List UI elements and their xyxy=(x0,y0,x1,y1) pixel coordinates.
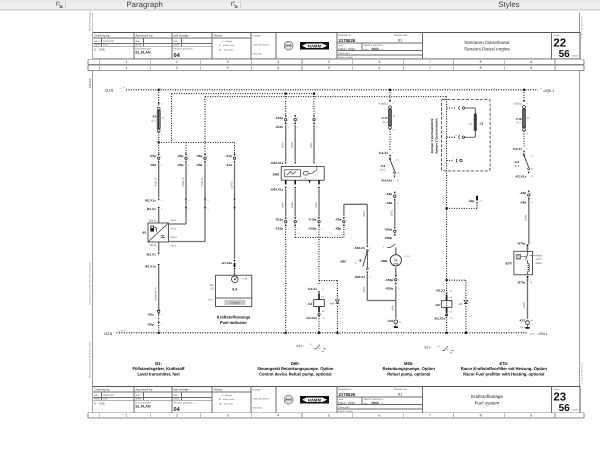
svg-text:-X16a: -X16a xyxy=(308,218,317,222)
svg-text:YE/0.75: YE/0.75 xyxy=(201,177,204,187)
svg-text:-X50a: -X50a xyxy=(384,227,393,231)
connector X5a lower xyxy=(158,310,160,312)
control device D60 xyxy=(281,167,324,181)
svg-text:Control device Refuel pump, op: Control device Refuel pump, optional xyxy=(259,371,332,376)
svg-text:Paragraph: Paragraph xyxy=(126,0,162,9)
svg-text:2/BN: 2/BN xyxy=(282,202,285,208)
svg-text:-S60.X1: -S60.X1 xyxy=(354,275,365,279)
connector col3 pins xyxy=(204,199,206,201)
fuse F5 xyxy=(157,107,160,110)
wire X16p col3 to relay K4 xyxy=(318,227,320,286)
svg-text:2/BN: 2/BN xyxy=(291,142,294,148)
svg-text:-B1.X1: -B1.X1 xyxy=(146,253,156,257)
wire X5a to B1 xyxy=(158,163,160,197)
svg-text:1/BN: 1/BN xyxy=(363,211,366,217)
toolbar separator xyxy=(240,1,242,9)
svg-text:-M60: -M60 xyxy=(380,259,387,263)
svg-text:01: 01 xyxy=(398,393,402,397)
svg-text:1/BN: 1/BN xyxy=(523,302,526,308)
connector -X5p/-X5a at x=158.7 xyxy=(158,154,160,156)
svg-text:EL.PLAN: EL.PLAN xyxy=(136,51,151,55)
connector K2.X1s xyxy=(528,172,530,174)
wire bus1 to F5 xyxy=(158,90,160,107)
svg-text:28.06.2011: 28.06.2011 xyxy=(103,394,115,397)
svg-text:10 /7Z: 10 /7Z xyxy=(121,329,127,332)
svg-text:-E70s: -E70s xyxy=(517,280,526,284)
svg-text:-K4: -K4 xyxy=(307,302,312,306)
svg-text:Racor Fuel prefilter with Heat: Racor Fuel prefilter with Heating, optio… xyxy=(463,371,544,376)
svg-text:8: 8 xyxy=(480,414,482,418)
wire bus1 +15 top xyxy=(126,89,538,91)
connector -X8a/-X8p lower x=343.9 xyxy=(343,217,345,219)
relay contact K2 xyxy=(523,154,525,156)
svg-text:Cockpit: Cockpit xyxy=(231,302,240,305)
svg-text:Schutzvermerk nach ISO 16016 b: Schutzvermerk nach ISO 16016 beachten xyxy=(89,262,92,305)
connector X50p/X50a below motor xyxy=(395,267,397,276)
svg-text:-V8: -V8 xyxy=(329,302,334,306)
svg-text:3s: 3s xyxy=(393,114,395,117)
svg-text:56: 56 xyxy=(559,49,571,60)
svg-text:01: 01 xyxy=(398,39,402,43)
svg-text:Sheet Location: Sheet Location xyxy=(338,56,353,59)
junction bus2/D60 pin1 xyxy=(285,93,287,95)
junction bus1/F14 xyxy=(389,89,391,91)
svg-text:H214 / H215: H214 / H215 xyxy=(338,47,355,51)
svg-text:-X5p: -X5p xyxy=(149,154,156,158)
svg-text:-X5p: -X5p xyxy=(196,154,203,158)
svg-text:P0006: P0006 xyxy=(536,254,543,257)
svg-text:Made in production nach ISO 16: Made in production nach ISO 16016 xyxy=(89,341,92,378)
connector E70s lower xyxy=(526,276,529,279)
HAMM logo xyxy=(300,42,329,50)
svg-text:9: 9 xyxy=(530,66,532,70)
svg-text:A-46: A-46 xyxy=(243,277,248,280)
wire X8a up and over to S60 xyxy=(343,204,345,216)
svg-text:-X31: -X31 xyxy=(519,318,526,322)
svg-text:/22.8: /22.8 xyxy=(104,332,112,336)
svg-text:Gn/1k: Gn/1k xyxy=(404,255,411,258)
svg-text:-D60.X1s: -D60.X1s xyxy=(270,188,283,192)
svg-text:IP - safety relev: IP - safety relev xyxy=(219,44,235,47)
svg-text:Sheets: Sheets xyxy=(572,409,578,412)
svg-text:GN(1)+: GN(1)+ xyxy=(149,220,158,223)
svg-text:Approved by:: Approved by: xyxy=(136,34,154,38)
svg-text:-X16p: -X16p xyxy=(275,227,284,231)
junction bus1/F5 xyxy=(158,89,160,91)
wire drop to X5 col2 xyxy=(185,142,187,153)
toolbar ribbon strip xyxy=(0,0,600,10)
wire E70 return to X31 xyxy=(527,279,529,319)
svg-text:/23.4: /23.4 xyxy=(380,168,386,171)
connector -X1p/-X1a at x=234.5 xyxy=(234,154,236,156)
material no cell xyxy=(337,42,423,44)
svg-text:Level transmitter, fuel: Level transmitter, fuel xyxy=(137,371,179,376)
svg-text:22: 22 xyxy=(553,37,566,49)
fuel prefilter E70 xyxy=(527,248,529,252)
svg-text:Sheet No.: Sheet No. xyxy=(253,406,263,409)
page 22 right frame edge xyxy=(579,13,581,33)
wires D60 to lower connectors xyxy=(285,189,287,217)
svg-text:Revision No.:: Revision No.: xyxy=(394,34,409,37)
svg-text:9: 9 xyxy=(530,60,532,64)
svg-text:Total Documents: Total Documents xyxy=(253,397,270,400)
wire B1 right pin top to col2 riser xyxy=(169,223,187,225)
wire X5p to ground bus xyxy=(158,323,160,333)
connector X16p/X16a D60 feed x=314 xyxy=(313,115,315,117)
jumper contact a lower xyxy=(447,136,456,138)
svg-text:23: 23 xyxy=(553,391,566,403)
svg-text:YEs4: YEs4 xyxy=(170,244,176,247)
svg-text:10.0Z: 10.0Z xyxy=(530,333,536,336)
svg-text:2/RD: 2/RD xyxy=(282,142,285,148)
wire X1a down to A1 xyxy=(234,163,236,259)
svg-text:© 2011 by Hamm AG: © 2011 by Hamm AG xyxy=(581,16,584,38)
connector S60.X1 lower xyxy=(366,272,368,274)
relay contact K4 xyxy=(389,158,391,160)
svg-text:8: 8 xyxy=(480,60,482,64)
svg-text:=/24.1: =/24.1 xyxy=(538,332,548,336)
connector -X16a/-X16p lower x=285.7 xyxy=(285,217,287,219)
wire S60 down to M60 return xyxy=(366,274,368,301)
svg-text:1/BN: 1/BN xyxy=(363,287,366,293)
svg-text:Fuel indicator: Fuel indicator xyxy=(220,320,247,325)
svg-text:-K2.X1: -K2.X1 xyxy=(512,147,522,151)
material no cell xyxy=(337,396,423,398)
svg-text:-X31: -X31 xyxy=(387,319,394,323)
svg-text:K - integra: K - integra xyxy=(222,394,233,397)
wire B1 bottom return xyxy=(158,242,160,252)
svg-text:/20.4: /20.4 xyxy=(208,298,214,301)
svg-text:/23.6: /23.6 xyxy=(514,164,520,167)
svg-text:name: name xyxy=(135,44,141,47)
svg-text:7: 7 xyxy=(429,60,431,64)
svg-text:E: E xyxy=(355,261,357,264)
svg-text:SP - wear was: SP - wear was xyxy=(219,403,234,406)
dialog launcher icon left group xyxy=(57,2,63,7)
wire F5 to junction xyxy=(158,132,160,142)
svg-text:-X8p: -X8p xyxy=(385,192,392,196)
svg-text:-K4.X1: -K4.X1 xyxy=(307,287,317,291)
svg-text:name: name xyxy=(94,398,100,401)
svg-text:3: 3 xyxy=(227,66,229,70)
svg-text:-X8a: -X8a xyxy=(335,218,342,222)
svg-text:-F1483.1: -F1483.1 xyxy=(378,102,389,105)
svg-text:-S60: -S60 xyxy=(340,259,347,263)
connector K4.X1s xyxy=(394,176,396,178)
svg-text:Approved by:: Approved by: xyxy=(136,388,154,392)
svg-text:date: date xyxy=(173,40,178,43)
junction bus2/D60 pin4 xyxy=(313,93,315,95)
column ruler bottom of page 23 xyxy=(88,412,584,414)
svg-text:6: 6 xyxy=(378,414,380,418)
connector X16p/X16a D60 feed x=285.7 xyxy=(285,115,287,117)
svg-text:1: 1 xyxy=(125,414,127,418)
svg-text:Lust: Lust xyxy=(103,44,108,47)
wire bus3 drop to jumper xyxy=(446,97,448,333)
svg-text:-X50p: -X50p xyxy=(384,236,393,240)
svg-text:HAMM: HAMM xyxy=(308,43,322,48)
svg-text:-K2: -K2 xyxy=(514,160,519,164)
wire into fuel indicator xyxy=(234,269,236,275)
wire X8a down to E70 xyxy=(528,199,530,244)
svg-text:date: date xyxy=(94,40,99,43)
svg-text:-X16p: -X16p xyxy=(308,227,317,231)
svg-text:EL.PLAN: EL.PLAN xyxy=(136,405,151,409)
svg-text:Status:: Status: xyxy=(214,34,224,38)
svg-text:BN/0.75: BN/0.75 xyxy=(155,177,158,187)
svg-text:2: 2 xyxy=(176,60,178,64)
svg-text:date: date xyxy=(173,394,178,397)
junction bus1/F16 xyxy=(523,89,525,91)
HAMM logo xyxy=(300,396,329,404)
svg-text:6: 6 xyxy=(378,66,380,70)
connector X8p/X8a M60 feed xyxy=(394,192,396,194)
svg-text:2178826: 2178826 xyxy=(339,38,356,43)
svg-text:from: from xyxy=(364,402,368,405)
svg-text:-X5a: -X5a xyxy=(150,163,157,167)
wire bus3 lower mid xyxy=(205,96,447,98)
svg-text:dB/9/1: dB/9/1 xyxy=(536,262,543,265)
wire M60 return to X31 xyxy=(395,286,397,319)
svg-text:2178826: 2178826 xyxy=(339,392,356,397)
connector B1.X1s xyxy=(158,199,160,201)
svg-text:date: date xyxy=(94,394,99,397)
wire bus2 to X16 col3 xyxy=(313,94,315,115)
junction to K2 coil branch xyxy=(446,279,448,281)
svg-text:M: M xyxy=(394,258,397,262)
title block frame xyxy=(93,386,580,412)
wire F16 to K2 contact xyxy=(523,131,525,147)
svg-text:IL4: IL4 xyxy=(232,288,237,292)
svg-text:/21.8: /21.8 xyxy=(105,89,113,93)
freewheel diode V2 xyxy=(447,279,466,281)
wire drop to X5 col1 xyxy=(158,142,160,153)
svg-text:-X2p: -X2p xyxy=(468,199,475,203)
svg-text:IP - safety relev: IP - safety relev xyxy=(219,398,235,401)
svg-text:K - integra: K - integra xyxy=(222,40,233,43)
level sensor B1 xyxy=(148,223,169,242)
svg-text:Quantity: Quantity xyxy=(253,388,262,391)
svg-text:-K4.X1s: -K4.X1s xyxy=(306,316,318,320)
svg-text:-D60.X1s: -D60.X1s xyxy=(270,161,283,165)
svg-text:/27.4: /27.4 xyxy=(382,121,388,124)
svg-text:0001: 0001 xyxy=(372,401,380,405)
title block row lines xyxy=(93,391,251,393)
pump motor M60 xyxy=(395,248,397,255)
svg-text:X2: X2 xyxy=(210,287,214,291)
svg-text:Drawing by:: Drawing by: xyxy=(94,388,110,392)
svg-text:-K2.X1: -K2.X1 xyxy=(436,289,446,293)
toolbar separator xyxy=(65,1,67,9)
svg-text:4: 4 xyxy=(277,66,279,70)
freewheel diode V8 xyxy=(319,280,337,282)
page 23 drawing frame xyxy=(93,70,580,386)
wires X16 to D60 xyxy=(285,125,287,161)
svg-text:Fuel system: Fuel system xyxy=(475,400,500,405)
svg-text:-S60.X1: -S60.X1 xyxy=(354,246,365,250)
wire bus2 link down xyxy=(171,94,173,143)
svg-text:-X1a: -X1a xyxy=(225,163,232,167)
svg-text:-X8a: -X8a xyxy=(386,201,393,205)
svg-text:5: 5 xyxy=(328,414,330,418)
svg-text:6: 6 xyxy=(378,60,380,64)
svg-text:-X8p: -X8p xyxy=(519,191,526,195)
svg-text:Sensors Diesel engine: Sensors Diesel engine xyxy=(464,46,510,51)
connector -X16a/-X16p lower x=319 xyxy=(318,217,320,219)
svg-text:BK(3)-: BK(3)- xyxy=(150,244,157,247)
Wirtgen Group round logo xyxy=(284,395,293,404)
svg-text:7: 7 xyxy=(429,414,431,418)
title block row lines xyxy=(93,37,251,39)
wire distribution bus to X connectors xyxy=(159,141,235,143)
dialog launcher icon paragraph group xyxy=(232,2,238,7)
svg-text:Function group No.: Function group No. xyxy=(174,48,194,51)
svg-text:AG/0.75: AG/0.75 xyxy=(182,177,185,187)
svg-text:Kraftstoffanzeige: Kraftstoffanzeige xyxy=(217,315,251,320)
svg-text:Function group No.: Function group No. xyxy=(174,402,194,405)
wire into B1 xyxy=(158,209,160,223)
svg-text:5: 5 xyxy=(328,60,330,64)
svg-text:Made in production: Made in production xyxy=(89,11,92,31)
svg-text:1/BN: 1/BN xyxy=(392,305,395,311)
svg-text:BNWH/0.75: BNWH/0.75 xyxy=(155,287,158,301)
svg-text:name: name xyxy=(135,398,141,401)
svg-text:3: 3 xyxy=(227,60,229,64)
D60 bottom pins xyxy=(285,180,287,184)
svg-text:H214 / H215: H214 / H215 xyxy=(338,401,355,405)
jumper spare contact xyxy=(447,160,454,162)
svg-text:Revision No.:: Revision No.: xyxy=(394,388,409,391)
svg-text:/23.6: /23.6 xyxy=(424,346,431,350)
svg-text:-F16.X1: -F16.X1 xyxy=(513,102,523,105)
svg-text:Material No.:: Material No.: xyxy=(339,34,353,37)
svg-text:1L/RD: 1L/RD xyxy=(230,181,233,188)
connector X50a/X50p xyxy=(394,227,396,229)
svg-text:date: date xyxy=(135,394,140,397)
svg-text:5: 5 xyxy=(328,66,330,70)
connector -X5p/-X5a at x=205 xyxy=(204,154,206,156)
svg-text:Sheets: Sheets xyxy=(572,55,578,58)
fuse F14 feed for K4 switch xyxy=(389,90,391,102)
node junction below F5 xyxy=(158,141,160,143)
wire B1 right pin bottom to col3 riser xyxy=(169,241,206,243)
svg-text:4: 4 xyxy=(277,414,279,418)
svg-text:-X8a: -X8a xyxy=(520,200,527,204)
svg-text:an/7C: an/7C xyxy=(536,258,542,261)
svg-text:-K2: -K2 xyxy=(435,303,440,307)
svg-text:last change:: last change: xyxy=(174,34,190,38)
title block frame xyxy=(93,32,580,58)
svg-text:-J2: -J2 xyxy=(479,122,484,126)
svg-text:© 2011 by Hamm AG: © 2011 by Hamm AG xyxy=(581,362,584,384)
connector B1.X1 lower xyxy=(158,253,160,255)
svg-text:from: from xyxy=(364,48,368,51)
svg-text:Styles: Styles xyxy=(498,0,519,9)
connector -X5p/-X5a at x=186 xyxy=(185,154,187,156)
svg-text:-E70s: -E70s xyxy=(517,241,526,245)
connector X5p lower xyxy=(158,321,160,323)
svg-text:/27.4: /27.4 xyxy=(516,122,522,125)
svg-text:Sheet No.: Sheet No. xyxy=(253,52,263,55)
svg-text:-A1.X2s: -A1.X2s xyxy=(221,261,233,265)
svg-text:Drawing by:: Drawing by: xyxy=(94,34,110,38)
svg-text:-V2: -V2 xyxy=(458,302,463,306)
svg-text:VT(2): VT(2) xyxy=(170,228,176,231)
connector X8p/X8a E70 feed xyxy=(528,191,530,193)
svg-text:2/BK: 2/BK xyxy=(315,202,318,208)
junction on ground bus col1 xyxy=(158,332,160,334)
svg-text:-K2.X1s: -K2.X1s xyxy=(515,174,527,178)
svg-text:M: M xyxy=(305,177,307,180)
svg-text:2/Gs4: 2/Gs4 xyxy=(170,236,177,239)
svg-text:2/OG: 2/OG xyxy=(291,202,294,208)
wire ground bus 31 xyxy=(117,332,529,334)
svg-text:-X8p: -X8p xyxy=(335,227,342,231)
svg-text:-X16s: -X16s xyxy=(275,125,284,129)
svg-text:=/Q5.1: =/Q5.1 xyxy=(543,89,554,93)
wire F14 to K4 contact xyxy=(389,129,391,150)
svg-text:04: 04 xyxy=(174,53,181,59)
svg-text:Material No.:: Material No.: xyxy=(339,388,353,391)
connector X2p xyxy=(476,196,478,201)
svg-text:-B1: -B1 xyxy=(142,231,147,235)
svg-text:-X5a: -X5a xyxy=(196,163,203,167)
wire drop to X1 col4 xyxy=(234,142,236,153)
svg-text:Total Documents: Total Documents xyxy=(253,43,270,46)
connector X16/pair lower x=295.2 xyxy=(294,217,296,219)
svg-text:2: 2 xyxy=(176,66,178,70)
svg-text:name: name xyxy=(173,44,179,47)
svg-text:04: 04 xyxy=(174,407,181,413)
svg-text:-X1p: -X1p xyxy=(225,154,232,158)
wire bus2 to X16 col1 xyxy=(285,94,287,115)
svg-text:name: name xyxy=(173,398,179,401)
svg-text:-F16: -F16 xyxy=(515,117,522,121)
svg-text:-F5: -F5 xyxy=(152,115,157,119)
wire bus2 mid xyxy=(172,93,315,95)
svg-text:AGs4: AGs4 xyxy=(170,219,177,222)
svg-text:1/RD: 1/RD xyxy=(391,210,394,216)
connector X16p/X16a D60 feed x=295.2 xyxy=(294,115,296,117)
svg-text:/21.1: /21.1 xyxy=(151,119,157,122)
svg-text:8: 8 xyxy=(480,66,482,70)
svg-text:-X16a: -X16a xyxy=(275,218,284,222)
svg-text:/23.5: /23.5 xyxy=(520,326,526,329)
svg-text:0001: 0001 xyxy=(372,47,380,51)
svg-text:E - CAE: E - CAE xyxy=(94,402,105,406)
svg-text:Sensoren Dieselmotor: Sensoren Dieselmotor xyxy=(464,40,510,45)
svg-text:-K2.X1s: -K2.X1s xyxy=(434,316,446,320)
svg-text:-F14: -F14 xyxy=(381,116,388,120)
jumper contact a upper xyxy=(447,107,456,109)
svg-text:1: 1 xyxy=(125,66,127,70)
svg-text:GR/1: GR/1 xyxy=(524,214,527,220)
svg-text:SP - wear was: SP - wear was xyxy=(219,49,234,52)
svg-text:Lust: Lust xyxy=(103,398,108,401)
svg-text:2/BK: 2/BK xyxy=(310,142,313,148)
svg-text:name: name xyxy=(94,44,100,47)
wire X16p col2 return link xyxy=(294,227,296,238)
wire bus1 to F16 xyxy=(523,90,525,102)
svg-text:Sheet plant: Sheet plant xyxy=(338,406,349,409)
svg-text:2: 2 xyxy=(176,414,178,418)
jumper 2 enclosure xyxy=(442,99,491,170)
column ruler top of page 23 xyxy=(88,64,584,66)
svg-text:-B1.X1s: -B1.X1s xyxy=(144,198,156,202)
connector B1.X1s lower xyxy=(158,264,160,266)
svg-text:9: 9 xyxy=(530,414,532,418)
svg-text:-B1.X1s: -B1.X1s xyxy=(144,265,156,269)
